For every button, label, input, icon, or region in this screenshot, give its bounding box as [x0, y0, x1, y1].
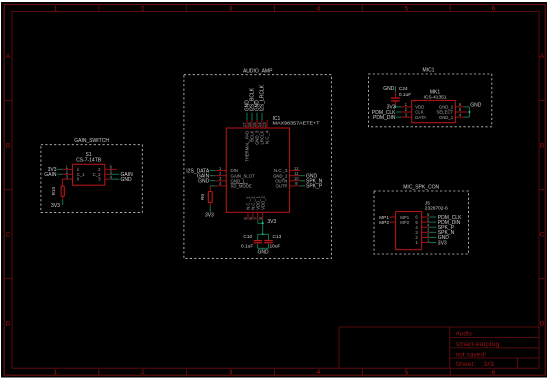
IC1 pin 15	[252, 120, 257, 128]
J5 pin 6	[422, 212, 430, 217]
svg-text:C24: C24	[399, 86, 408, 92]
wire GND to C24	[394, 86, 396, 91]
svg-text:smart-earplug: smart-earplug	[456, 341, 500, 348]
wire IC1 pin9 to SPK_P	[300, 185, 305, 187]
S1 pin 2	[63, 170, 73, 175]
svg-text:3V3: 3V3	[438, 240, 447, 246]
svg-text:3/3: 3/3	[483, 361, 495, 368]
wire I2S_DATA to IC1 pin1	[210, 170, 216, 172]
svg-text:MP2: MP2	[379, 220, 389, 226]
svg-text:CS-7-14TB: CS-7-14TB	[76, 158, 102, 164]
sheet block GAIN_SWITCH	[41, 145, 142, 213]
svg-text:N.C._4: N.C._4	[265, 130, 270, 144]
IC1 pin 8	[258, 212, 263, 220]
wire J5 pin 3 to SPK_N	[429, 231, 436, 233]
row letters left	[6, 53, 11, 327]
svg-text:6: 6	[492, 5, 496, 12]
svg-text:B: B	[540, 142, 544, 149]
svg-text:GND_1: GND_1	[439, 115, 454, 120]
svg-text:3V3: 3V3	[267, 219, 276, 225]
op-amp IC1 designator	[273, 116, 320, 127]
capacitor C13	[264, 241, 273, 243]
IC1 pin 9	[290, 181, 300, 186]
wire S1 pin4 to GND	[110, 178, 119, 180]
label 0.1uF C24	[399, 92, 411, 98]
label GAIN_SWITCH	[74, 138, 109, 144]
IC1 pin 5	[243, 212, 248, 220]
IC1 pin 3	[215, 176, 226, 181]
S1 pin 3	[63, 174, 73, 179]
IC1 pin 11	[290, 171, 300, 176]
wire R9 to 3V3	[209, 206, 211, 212]
mic MK1 designator	[424, 89, 447, 100]
wire GND to IC1 top	[256, 113, 258, 120]
J5 pin 4	[422, 222, 430, 227]
MK1 pin 5	[455, 107, 467, 112]
wire J5 pin 4 to SPK_P	[429, 226, 436, 228]
svg-text:R10: R10	[51, 187, 56, 196]
net label SPK_N	[306, 179, 323, 185]
IC1 pin 13	[262, 120, 267, 128]
power label 3V3 left	[48, 167, 57, 173]
svg-text:1: 1	[54, 369, 58, 376]
net label GND vertical	[245, 100, 251, 112]
svg-text:D: D	[6, 321, 11, 328]
net label GAIN	[197, 174, 210, 180]
svg-text:GND: GND	[383, 86, 395, 92]
wire cap rail top	[258, 234, 269, 240]
svg-text:SD_MODE: SD_MODE	[231, 184, 252, 189]
wire GND to IC1 top	[246, 113, 248, 120]
S1 pin 5	[105, 170, 113, 175]
net label SPK_P	[306, 184, 323, 190]
wire MK1 right pins to GND	[464, 107, 469, 117]
wire S1 pin5 to GAIN	[110, 173, 119, 175]
wire 3V3 to S1 pin1	[57, 168, 62, 170]
svg-text:6: 6	[492, 369, 496, 376]
svg-text:R9: R9	[200, 194, 205, 200]
capacitor C24	[391, 92, 400, 107]
capacitor C10	[254, 241, 263, 243]
connector J5 body	[396, 212, 422, 250]
svg-text:MAX98357AETE+T: MAX98357AETE+T	[273, 121, 320, 127]
IC1 pin 14	[257, 120, 262, 128]
resistor R9	[208, 192, 212, 203]
title text Audio	[456, 330, 473, 337]
svg-text:3: 3	[229, 5, 233, 12]
net label GAIN right	[121, 172, 134, 178]
svg-text:MP2: MP2	[400, 220, 409, 225]
wire R10 to 3V3	[62, 200, 64, 205]
power label GND	[257, 250, 269, 256]
net label I2S_DATA	[186, 168, 210, 174]
J5 pin MP2	[389, 221, 395, 223]
svg-text:4: 4	[317, 369, 321, 376]
net label MP2	[379, 220, 389, 226]
label C24	[399, 86, 408, 92]
IC1 pin 17	[242, 120, 247, 128]
label 0.1uF	[241, 244, 253, 250]
IC1 pin 16	[247, 120, 252, 128]
S1 pin 1	[63, 165, 73, 170]
svg-text:Sheet:: Sheet:	[456, 361, 476, 368]
net label GND	[438, 235, 450, 241]
junction C24 to 3V3 rail	[395, 106, 397, 108]
J5 pin 1	[422, 238, 430, 243]
title block	[339, 327, 539, 368]
svg-text:C10: C10	[243, 234, 252, 240]
label R9	[200, 194, 205, 200]
junction at 3V3	[262, 222, 264, 224]
wire J5 pin 5 to PDM_DIN	[429, 221, 436, 223]
MK1 pin 1	[401, 102, 412, 107]
S1 pin 4	[105, 174, 113, 179]
label 10uF	[270, 244, 281, 250]
wire cap rail bottom to GND	[258, 244, 269, 250]
svg-text:C: C	[540, 231, 545, 238]
svg-text:GND: GND	[470, 102, 482, 108]
IC1 pin 10	[290, 176, 300, 181]
svg-text:D: D	[540, 321, 545, 328]
svg-text:2: 2	[141, 369, 145, 376]
svg-text:0.1uF: 0.1uF	[241, 244, 253, 250]
svg-text:AUDIO_AMP: AUDIO_AMP	[243, 68, 273, 74]
svg-text:3V3: 3V3	[51, 203, 60, 209]
sheet block MIC1	[368, 74, 491, 127]
svg-text:Audio: Audio	[456, 330, 473, 337]
svg-text:2: 2	[141, 5, 145, 12]
svg-text:GAIN_SWITCH: GAIN_SWITCH	[74, 138, 109, 144]
J5 pin MP1	[389, 216, 395, 218]
svg-text:3: 3	[229, 369, 233, 376]
svg-text:MIC_SPK_CON: MIC_SPK_CON	[403, 185, 439, 191]
net label GND right	[121, 177, 133, 183]
svg-text:3V3: 3V3	[205, 212, 214, 218]
svg-text:C13: C13	[273, 234, 282, 240]
wire GND to IC1 pin3	[210, 180, 216, 182]
label MIC_SPK_CON	[403, 185, 439, 191]
column numbers bottom	[54, 369, 496, 376]
power label 3V3 below R10	[51, 203, 60, 209]
sheet block MIC_SPK_CON	[374, 191, 469, 254]
label C10	[243, 234, 252, 240]
IC1 pin 2	[215, 171, 226, 176]
title text sheet	[456, 361, 495, 368]
svg-text:10uF: 10uF	[270, 244, 281, 250]
net label GND	[198, 179, 210, 185]
svg-text:MK1: MK1	[430, 89, 441, 95]
wire J5 pin 1 to 3V3	[429, 242, 436, 244]
power label GND MIC right	[470, 102, 482, 108]
wire PDM_CLK to MK1 pin2	[396, 111, 401, 113]
net label I2S_BCLK vertical	[250, 87, 256, 111]
J5 pin 2	[422, 233, 430, 238]
mic MK1 body	[412, 101, 456, 123]
sheet block AUDIO_AMP	[184, 75, 332, 259]
power label GND at C24	[383, 86, 395, 92]
R10 lower lead	[62, 196, 64, 200]
IC1 pin 12	[290, 166, 301, 171]
svg-text:B: B	[6, 142, 10, 149]
title text not saved	[456, 351, 487, 358]
wire J5 pin 2 to GND	[429, 236, 436, 238]
op-amp IC1 body	[226, 128, 289, 212]
svg-text:VDD_2: VDD_2	[260, 195, 265, 209]
MK1 pin 6	[455, 102, 464, 107]
IC1 pin 4	[215, 181, 226, 186]
switch S1 body	[73, 164, 105, 185]
wire IC1 pin4 to R9	[210, 186, 215, 192]
svg-text:13: 13	[262, 122, 267, 127]
net label GND right	[306, 174, 318, 180]
MK1 pin 3	[401, 112, 412, 117]
svg-text:ICS-41351: ICS-41351	[424, 95, 447, 101]
wire I2S_BCLK to IC1 top	[251, 113, 253, 120]
connector J5 designator	[425, 200, 448, 211]
J5 pin 3	[422, 228, 430, 233]
label R10	[51, 187, 56, 196]
svg-text:4: 4	[317, 5, 321, 12]
net label MP1	[379, 215, 389, 221]
junction MK1 select	[468, 111, 470, 113]
net label SPK_P	[438, 225, 455, 231]
J5 pin 5	[422, 217, 430, 222]
svg-text:2328702-6: 2328702-6	[425, 206, 448, 212]
wire GAIN to IC1 pin2	[210, 175, 216, 177]
svg-text:0.1uF: 0.1uF	[399, 92, 411, 98]
svg-text:DATA: DATA	[415, 115, 426, 120]
svg-text:1: 1	[54, 5, 58, 12]
svg-text:A: A	[6, 53, 11, 60]
label C13	[273, 234, 282, 240]
wire J5 pin 6 to PDM_CLK	[429, 216, 436, 218]
wire S1 pin3 to R10	[62, 179, 64, 187]
wire IC1 pin10 to SPK_N	[300, 180, 305, 182]
net label 3V3	[438, 240, 447, 246]
IC1 pin 1	[215, 166, 226, 171]
net label GND vertical	[255, 100, 261, 112]
title text smart-earplug	[456, 341, 500, 348]
net label GAIN left	[44, 172, 57, 178]
R9 lower lead	[209, 202, 211, 206]
svg-text:GND: GND	[257, 250, 269, 256]
label MIC1	[423, 68, 435, 74]
wire PDM_DIN to MK1 pin3	[396, 116, 401, 118]
row letters right	[540, 53, 545, 327]
svg-text:GND: GND	[121, 177, 133, 183]
net label PDM_DIN	[373, 115, 396, 121]
svg-text:J5: J5	[425, 200, 430, 206]
power label 3V3	[267, 219, 276, 225]
column numbers top	[54, 5, 496, 12]
wire 3V3 to MK1 pin1	[396, 106, 401, 108]
resistor R10	[61, 186, 64, 196]
svg-text:5: 5	[404, 5, 408, 12]
power label 3V3 MIC	[387, 105, 396, 111]
junction at cap rail	[262, 233, 264, 235]
svg-text:GND: GND	[198, 179, 210, 185]
svg-text:MIC1: MIC1	[423, 68, 435, 74]
net label PDM_DIN	[438, 220, 461, 226]
power label 3V3 below R9	[205, 212, 214, 218]
MK1 pin 2	[401, 107, 412, 112]
wire GAIN to S1 pin2	[57, 173, 62, 175]
wire IC1 pin11 to GND	[300, 175, 305, 177]
switch S1 designator	[76, 152, 102, 163]
wire I2S_LRCLK to IC1 top	[261, 113, 263, 120]
net label PDM_CLK	[372, 110, 396, 116]
svg-text:A: A	[540, 53, 545, 60]
svg-text:PDM_DIN: PDM_DIN	[373, 115, 396, 121]
svg-text:SPK_P: SPK_P	[306, 184, 323, 190]
wire VDD pins to 3V3	[258, 220, 263, 235]
svg-text:OUTP: OUTP	[275, 184, 287, 189]
MK1 pin 4	[455, 112, 464, 117]
svg-text:GAIN: GAIN	[44, 172, 57, 178]
svg-text:MP1: MP1	[379, 215, 389, 221]
svg-text:not saved!: not saved!	[456, 351, 487, 358]
IC1 pin 6	[248, 212, 253, 220]
net label PDM_CLK	[438, 215, 462, 221]
S1 pin 6	[105, 165, 117, 170]
net label I2S_LRCLK vertical	[260, 84, 266, 111]
IC1 pin 7	[253, 212, 258, 220]
svg-text:I2S_LRCLK: I2S_LRCLK	[260, 84, 266, 111]
label AUDIO_AMP	[243, 68, 273, 74]
svg-text:5: 5	[404, 369, 408, 376]
svg-text:C: C	[6, 231, 11, 238]
net label SPK_N	[438, 230, 455, 236]
